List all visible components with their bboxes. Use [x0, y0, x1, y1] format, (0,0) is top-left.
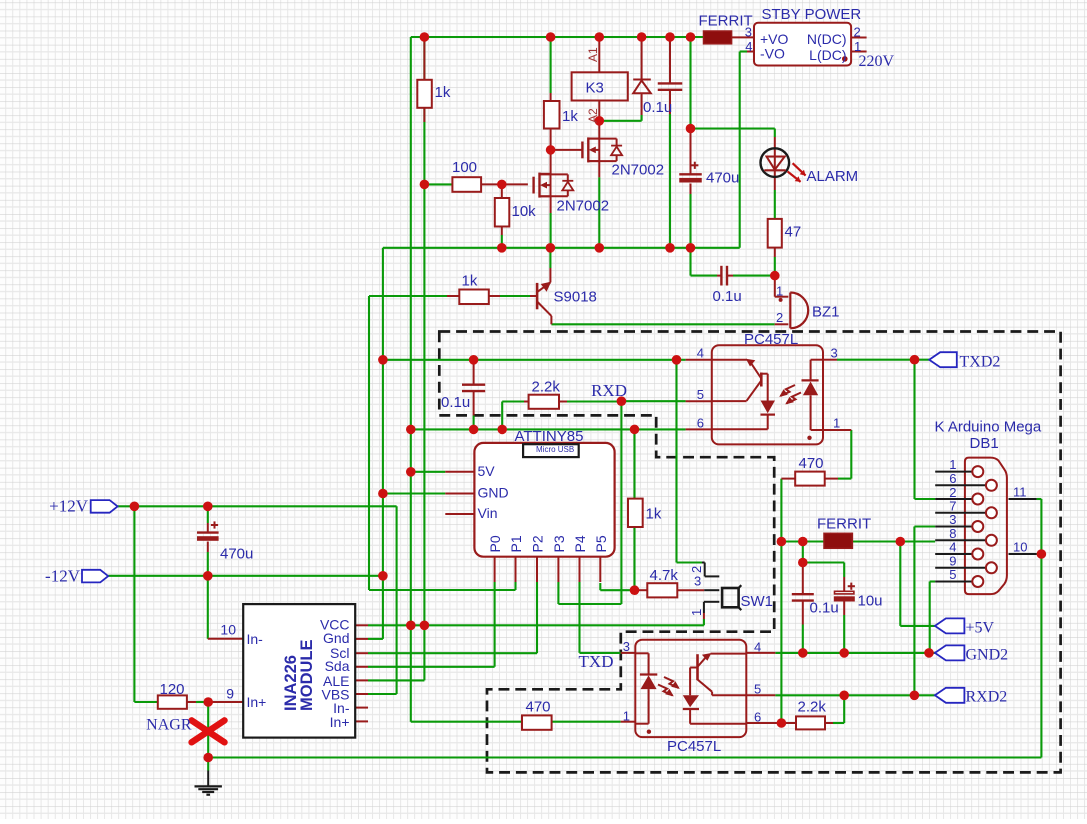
svg-text:3: 3 — [745, 25, 752, 40]
svg-text:4: 4 — [697, 346, 704, 361]
svg-text:5: 5 — [949, 567, 956, 582]
svg-text:+12V: +12V — [49, 497, 89, 516]
svg-text:6: 6 — [697, 416, 704, 431]
svg-text:1: 1 — [949, 457, 956, 472]
svg-text:10: 10 — [1013, 540, 1027, 555]
svg-text:1k: 1k — [462, 273, 478, 290]
svg-text:MODULE: MODULE — [298, 640, 316, 712]
svg-text:STBY POWER: STBY POWER — [762, 6, 862, 23]
svg-text:470u: 470u — [220, 546, 253, 563]
svg-text:ALARM: ALARM — [807, 168, 859, 185]
svg-text:RXD: RXD — [591, 381, 627, 400]
svg-text:0.1u: 0.1u — [713, 288, 742, 305]
svg-text:P3: P3 — [551, 535, 567, 552]
svg-text:5: 5 — [754, 682, 761, 697]
svg-text:+5V: +5V — [966, 620, 995, 637]
svg-text:Gnd: Gnd — [323, 630, 349, 646]
svg-text:2: 2 — [854, 25, 861, 40]
svg-text:N(DC): N(DC) — [807, 31, 847, 47]
svg-text:A1: A1 — [586, 47, 600, 62]
svg-text:GND: GND — [478, 485, 509, 501]
svg-text:Vin: Vin — [478, 505, 498, 521]
svg-text:K Arduino Mega: K Arduino Mega — [935, 419, 1042, 436]
svg-text:10: 10 — [220, 622, 236, 638]
svg-text:A2: A2 — [586, 108, 600, 123]
svg-text:11: 11 — [1013, 485, 1027, 500]
svg-text:2: 2 — [689, 566, 704, 573]
svg-text:470u: 470u — [706, 170, 739, 187]
svg-text:TXD: TXD — [579, 652, 614, 671]
svg-text:3: 3 — [949, 512, 956, 527]
svg-text:ATTINY85: ATTINY85 — [515, 428, 584, 445]
svg-text:6: 6 — [949, 471, 956, 486]
svg-text:120: 120 — [160, 681, 185, 698]
svg-text:1k: 1k — [646, 506, 662, 523]
svg-text:-VO: -VO — [760, 46, 785, 62]
svg-text:0.1u: 0.1u — [810, 600, 839, 617]
svg-text:0.1u: 0.1u — [441, 394, 470, 411]
svg-text:-12V: -12V — [45, 567, 81, 586]
svg-text:10k: 10k — [512, 203, 537, 220]
svg-text:4: 4 — [754, 640, 761, 655]
svg-text:4: 4 — [745, 39, 752, 54]
svg-text:9: 9 — [226, 686, 234, 702]
svg-text:3: 3 — [623, 639, 630, 654]
svg-text:K3: K3 — [586, 80, 604, 97]
svg-text:2N7002: 2N7002 — [557, 198, 610, 215]
svg-text:2.2k: 2.2k — [532, 379, 561, 396]
svg-text:47: 47 — [785, 224, 802, 241]
svg-text:PC457L: PC457L — [744, 331, 798, 348]
svg-text:S9018: S9018 — [554, 289, 597, 306]
svg-text:NAGR: NAGR — [146, 717, 192, 734]
svg-text:470: 470 — [526, 699, 551, 716]
svg-text:1: 1 — [623, 709, 630, 724]
svg-text:TXD2: TXD2 — [960, 354, 1001, 371]
svg-text:2.2k: 2.2k — [798, 699, 827, 716]
svg-text:Sda: Sda — [325, 658, 350, 674]
svg-text:P5: P5 — [593, 535, 609, 552]
svg-text:470: 470 — [799, 455, 824, 472]
svg-text:1: 1 — [689, 609, 704, 616]
svg-text:2: 2 — [776, 310, 783, 325]
svg-text:5: 5 — [697, 387, 704, 402]
svg-text:5V: 5V — [478, 463, 496, 479]
svg-text:L(DC): L(DC) — [809, 47, 846, 63]
svg-text:P1: P1 — [508, 535, 524, 552]
svg-text:In+: In+ — [330, 714, 350, 730]
svg-text:FERRIT: FERRIT — [817, 516, 871, 533]
svg-text:In+: In+ — [247, 694, 267, 710]
svg-text:DB1: DB1 — [970, 435, 999, 452]
svg-text:1: 1 — [833, 416, 840, 431]
svg-text:220V: 220V — [859, 53, 895, 70]
svg-text:6: 6 — [754, 710, 761, 725]
svg-text:PC457L: PC457L — [667, 738, 721, 755]
svg-text:GND2: GND2 — [966, 647, 1009, 664]
svg-text:SW1: SW1 — [741, 593, 774, 610]
svg-text:P0: P0 — [487, 535, 503, 552]
svg-text:RXD2: RXD2 — [966, 689, 1008, 706]
svg-text:1: 1 — [854, 39, 861, 54]
svg-text:10u: 10u — [858, 593, 883, 610]
svg-text:BZ1: BZ1 — [812, 304, 840, 321]
svg-text:4.7k: 4.7k — [650, 567, 679, 584]
svg-text:0.1u: 0.1u — [643, 99, 672, 116]
svg-text:4: 4 — [949, 540, 956, 555]
svg-text:1: 1 — [776, 284, 783, 299]
svg-text:100: 100 — [452, 159, 477, 176]
svg-text:1k: 1k — [435, 84, 451, 101]
svg-text:1k: 1k — [562, 108, 578, 125]
svg-text:P2: P2 — [530, 535, 546, 552]
svg-text:P4: P4 — [572, 535, 588, 552]
svg-text:3: 3 — [694, 574, 701, 589]
svg-text:In-: In- — [247, 631, 264, 647]
svg-text:3: 3 — [831, 346, 838, 361]
svg-text:Micro USB: Micro USB — [536, 445, 574, 454]
svg-text:2N7002: 2N7002 — [612, 162, 665, 179]
